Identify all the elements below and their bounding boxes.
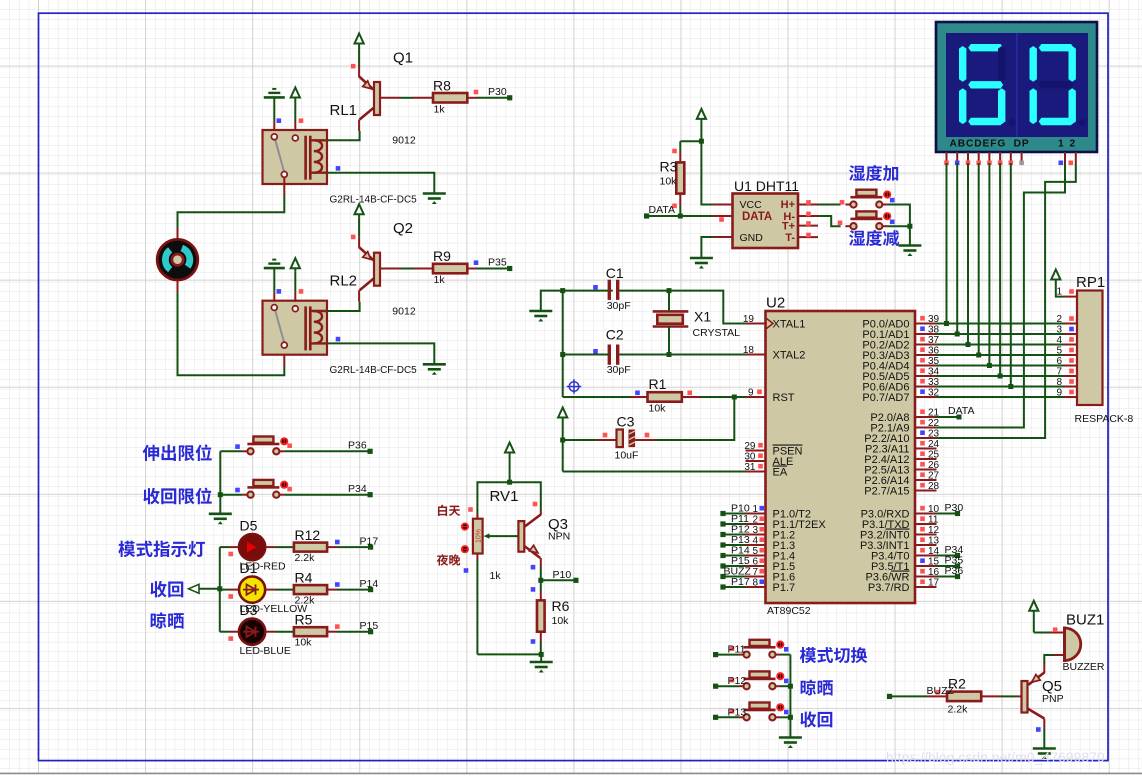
svg-text:P12: P12: [728, 675, 747, 687]
svg-text:37: 37: [928, 335, 940, 346]
svg-text:35: 35: [928, 356, 940, 367]
motor: [157, 239, 198, 280]
potentiometer RV1 1k: [461, 488, 538, 654]
svg-text:P35: P35: [488, 257, 507, 269]
transistor Q2 9012: [351, 204, 416, 317]
svg-text:25: 25: [928, 450, 940, 461]
svg-text:31: 31: [744, 462, 756, 473]
svg-text:10k: 10k: [552, 615, 570, 627]
transistor Q1 9012: [351, 34, 416, 147]
svg-text:17: 17: [928, 578, 940, 589]
svg-text:1: 1: [1056, 287, 1062, 298]
svg-text:P14: P14: [360, 578, 379, 590]
svg-text:RL2: RL2: [330, 273, 358, 290]
LED D5 LED-RED with resistor R12 2.2k: [220, 518, 379, 573]
svg-text:P0.7/AD7: P0.7/AD7: [862, 392, 909, 404]
svg-text:2.2k: 2.2k: [948, 704, 969, 716]
svg-text:26: 26: [928, 460, 940, 471]
svg-text:C1: C1: [606, 265, 624, 281]
resistor R3 10k: [660, 141, 702, 216]
label mode-switch: [800, 647, 867, 663]
svg-text:R1: R1: [649, 376, 667, 392]
svg-text:D5: D5: [240, 518, 258, 534]
svg-text:RST: RST: [773, 392, 795, 404]
svg-text:ABCDEFG DP: ABCDEFG DP: [950, 139, 1030, 150]
reversed ground above RL2: [264, 260, 285, 302]
window edge strip: [0, 772, 1142, 774]
svg-text:AT89C52: AT89C52: [767, 605, 811, 617]
svg-text:R5: R5: [295, 612, 313, 628]
power symbol for DHT11 VCC: [697, 109, 713, 205]
svg-text:5: 5: [752, 546, 758, 557]
label extend-limit: [143, 444, 212, 461]
svg-text:R4: R4: [295, 570, 313, 586]
resistor R2 2.2k: [887, 676, 1022, 716]
left rail C1-C2-RST: [562, 291, 564, 397]
LED D1 LED-YELLOW with resistor R4 2.2k: [220, 560, 379, 615]
push button retract-limit P34: [220, 480, 372, 498]
svg-text:CRYSTAL: CRYSTAL: [693, 327, 741, 339]
ground for DHT11: [690, 237, 713, 269]
svg-text:30pF: 30pF: [607, 364, 631, 376]
svg-text:Q2: Q2: [393, 220, 413, 237]
svg-text:PNP: PNP: [1042, 693, 1064, 705]
ground for limit switches: [209, 451, 232, 524]
push button P12 mode: [713, 671, 790, 689]
label daytime: [438, 505, 460, 516]
transistor Q3 NPN: [518, 510, 570, 580]
svg-text:10k: 10k: [649, 403, 667, 415]
svg-text:10uF: 10uF: [615, 450, 639, 462]
output terminals P30 P34 P35 P36: [937, 502, 964, 579]
svg-text:RV1: RV1: [490, 488, 519, 505]
power symbol for C3/EA rail: [558, 408, 567, 421]
svg-text:P36: P36: [348, 440, 367, 452]
svg-text:P30: P30: [945, 502, 964, 514]
U2 right side pin stubs, numbers and markers: [915, 314, 940, 589]
svg-text:10k: 10k: [295, 637, 313, 649]
svg-text:36: 36: [928, 346, 940, 357]
svg-text:P11: P11: [728, 644, 746, 656]
svg-text:P36: P36: [945, 565, 964, 577]
ground for Q5: [1033, 749, 1056, 760]
svg-text:D3: D3: [240, 602, 258, 618]
ground for C1/C2 rail: [529, 291, 612, 322]
power symbol above RL2: [291, 258, 304, 302]
svg-text:7: 7: [752, 567, 758, 578]
DHT11 H+ H- T+ T- pin stubs: [798, 200, 818, 237]
push button P13 mode: [713, 703, 790, 721]
U2 left side pin stubs and numbers: [743, 314, 766, 589]
svg-text:U2: U2: [766, 295, 785, 312]
LED rail: [217, 547, 222, 632]
svg-text:30pF: 30pF: [607, 300, 631, 312]
svg-text:X1: X1: [694, 309, 711, 325]
push button humidity-up: [845, 190, 894, 208]
svg-text:1k: 1k: [490, 570, 502, 582]
svg-text:DATA: DATA: [948, 405, 974, 417]
wires buttons to ground: [887, 205, 921, 257]
svg-text:1: 1: [752, 504, 758, 515]
push button humidity-down: [845, 211, 894, 229]
svg-text:BUZ1: BUZ1: [1066, 612, 1104, 629]
wire display common 1 to P2.1: [937, 163, 1066, 428]
svg-text:9012: 9012: [392, 305, 416, 317]
svg-text:RP1: RP1: [1076, 274, 1105, 291]
resistor R9 1k: [381, 248, 513, 286]
svg-text:9012: 9012: [392, 135, 416, 147]
top rail RV1/Q3: [477, 482, 540, 519]
svg-text:G2RL-14B-CF-DC5: G2RL-14B-CF-DC5: [330, 365, 418, 376]
svg-text:BUZZ: BUZZ: [927, 685, 955, 697]
label humidity-up: [849, 165, 898, 181]
svg-text:P30: P30: [488, 86, 507, 98]
net terminal P10: [531, 569, 579, 592]
svg-text:32: 32: [928, 388, 940, 399]
svg-text:P13: P13: [728, 706, 747, 718]
wire C1 to XTAL1: [669, 291, 746, 324]
crystal X1: [653, 291, 740, 355]
svg-text:10k: 10k: [660, 176, 678, 188]
resistor R6 10k: [531, 580, 570, 654]
wire motor to RL2 switch: [178, 280, 285, 375]
svg-text:DATA: DATA: [742, 211, 772, 223]
svg-text:RL1: RL1: [330, 102, 358, 119]
wire H+ to humidity-up button: [818, 200, 844, 205]
svg-text:2.2k: 2.2k: [295, 552, 316, 564]
microcontroller U2 AT89C52: [766, 295, 916, 618]
svg-text:27: 27: [928, 471, 940, 482]
svg-text:R12: R12: [295, 527, 321, 543]
capacitor C3 10uF: [560, 397, 734, 472]
svg-text:1k: 1k: [434, 274, 446, 286]
svg-text:22: 22: [928, 418, 940, 429]
wire EA to rail: [563, 471, 746, 473]
P1.0-P1.7 input terminals P10-P17/BUZZ: [720, 502, 751, 589]
power symbol above RL1: [291, 88, 304, 132]
svg-text:24: 24: [928, 439, 940, 450]
resistor R1 10k: [563, 376, 746, 415]
svg-text:33: 33: [928, 377, 940, 388]
label dry (button): [801, 679, 833, 695]
svg-text:30: 30: [744, 452, 756, 463]
svg-text:2.2k: 2.2k: [295, 595, 316, 607]
svg-text:T+: T+: [782, 221, 795, 233]
svg-text:8: 8: [752, 578, 758, 589]
svg-text:39: 39: [928, 314, 940, 325]
power symbol for RP1: [1051, 270, 1063, 297]
svg-text:38: 38: [928, 325, 940, 336]
LED D3 LED-BLUE with resistor R5 10k: [220, 602, 379, 657]
resistor R8 1k: [381, 78, 513, 116]
svg-text:https://blog.csdn.net/m0_47699: https://blog.csdn.net/m0_47699870: [886, 749, 1105, 765]
svg-text:34: 34: [928, 367, 940, 378]
ground for RV1/R6: [477, 652, 552, 673]
svg-text:R8: R8: [433, 78, 451, 94]
label retract-limit: [143, 488, 211, 505]
svg-text:NPN: NPN: [548, 531, 570, 543]
svg-text:P1.7: P1.7: [773, 582, 796, 594]
svg-text:GND: GND: [740, 232, 764, 244]
svg-text:12: 12: [928, 525, 940, 536]
svg-text:10%: 10%: [476, 529, 483, 543]
svg-text:R9: R9: [433, 248, 451, 264]
relay RL2 G2RL-14B-CF-DC5: [263, 273, 418, 377]
svg-text:D1: D1: [240, 560, 258, 576]
svg-text:C2: C2: [606, 327, 624, 343]
7-segment display module (showing 60): [936, 22, 1097, 152]
push button P11 mode: [713, 640, 790, 658]
ground for RL2 coil: [327, 337, 446, 375]
svg-text:U1 DHT11: U1 DHT11: [734, 178, 799, 194]
watermark: [886, 749, 1105, 765]
svg-text:Q1: Q1: [393, 50, 413, 67]
svg-text:P34: P34: [348, 483, 367, 495]
svg-text:1k: 1k: [434, 104, 446, 116]
label retract: [150, 581, 183, 598]
svg-text:11: 11: [928, 515, 939, 526]
ground for RL1 coil: [327, 166, 446, 204]
wires display segments A-G to P0.0-P0.6 bus: [944, 163, 1013, 389]
label humidity-down: [849, 230, 899, 246]
svg-text:2: 2: [752, 515, 758, 526]
wire RL1 coil to Q1: [327, 131, 360, 140]
resistor pack RP1 RESPACK-8: [1056, 274, 1133, 425]
svg-text:EA: EA: [773, 467, 788, 479]
push button extend-limit P36: [220, 437, 372, 455]
svg-text:XTAL2: XTAL2: [773, 350, 806, 362]
svg-text:3: 3: [752, 525, 758, 536]
svg-text:23: 23: [928, 429, 940, 440]
svg-text:G2RL-14B-CF-DC5: G2RL-14B-CF-DC5: [330, 195, 418, 206]
svg-text:P10: P10: [553, 569, 572, 581]
svg-text:1: 1: [1058, 139, 1064, 150]
svg-text:C3: C3: [617, 414, 635, 430]
buzzer BUZ1: [1034, 612, 1105, 674]
label mode-indicator: [118, 541, 205, 557]
svg-text:P2.7/A15: P2.7/A15: [864, 486, 909, 498]
svg-text:4: 4: [752, 536, 758, 547]
svg-text:T-: T-: [785, 232, 795, 244]
wire display common 2 to P2.2: [937, 163, 1076, 438]
net label DATA at P2.0: [937, 405, 975, 420]
wire H- to humidity-down button: [818, 216, 842, 226]
svg-text:29: 29: [744, 441, 756, 452]
ground rail mode buttons: [779, 655, 802, 748]
input arrow for LED rail: [189, 584, 220, 593]
power symbol for buzzer: [1029, 601, 1038, 633]
svg-text:R6: R6: [552, 598, 570, 614]
svg-text:2: 2: [1070, 139, 1076, 150]
label retract (button): [800, 711, 832, 727]
svg-text:P17: P17: [360, 536, 379, 548]
power symbol for RV1: [505, 443, 514, 485]
capacitor C1 30pF: [560, 265, 671, 312]
no-ERC marker: [567, 379, 582, 394]
wire RL1 switch to motor: [178, 177, 285, 240]
svg-text:H+: H+: [781, 199, 795, 211]
svg-text:28: 28: [928, 481, 940, 492]
svg-text:P3.7/RD: P3.7/RD: [868, 582, 910, 594]
svg-text:XTAL1: XTAL1: [773, 319, 806, 331]
svg-text:P17: P17: [731, 576, 750, 588]
svg-text:6: 6: [752, 557, 758, 568]
label dry: [151, 612, 184, 628]
svg-text:R3: R3: [660, 159, 678, 175]
reversed ground above RL1: [264, 89, 285, 131]
wire RL2 coil to Q2: [327, 302, 360, 311]
relay RL1 G2RL-14B-CF-DC5: [263, 102, 418, 206]
svg-text:BUZZER: BUZZER: [1063, 661, 1105, 673]
svg-text:LED-BLUE: LED-BLUE: [240, 645, 291, 657]
svg-text:VCC: VCC: [740, 199, 763, 211]
svg-text:13: 13: [928, 536, 940, 547]
bus wires P0.0-P0.7 to RP1 pins 2-9: [937, 324, 1064, 398]
display pins A-DP and 1,2: [944, 152, 1076, 165]
capacitor C2 30pF: [560, 327, 745, 377]
label night: [437, 554, 461, 565]
svg-text:DATA: DATA: [649, 204, 675, 216]
sensor U1 DHT11: [713, 178, 800, 248]
svg-text:RESPACK-8: RESPACK-8: [1075, 413, 1134, 425]
net terminal DATA: [644, 204, 724, 222]
svg-text:9: 9: [748, 388, 754, 399]
svg-text:P15: P15: [360, 620, 379, 632]
transistor Q5 PNP: [1022, 655, 1064, 749]
